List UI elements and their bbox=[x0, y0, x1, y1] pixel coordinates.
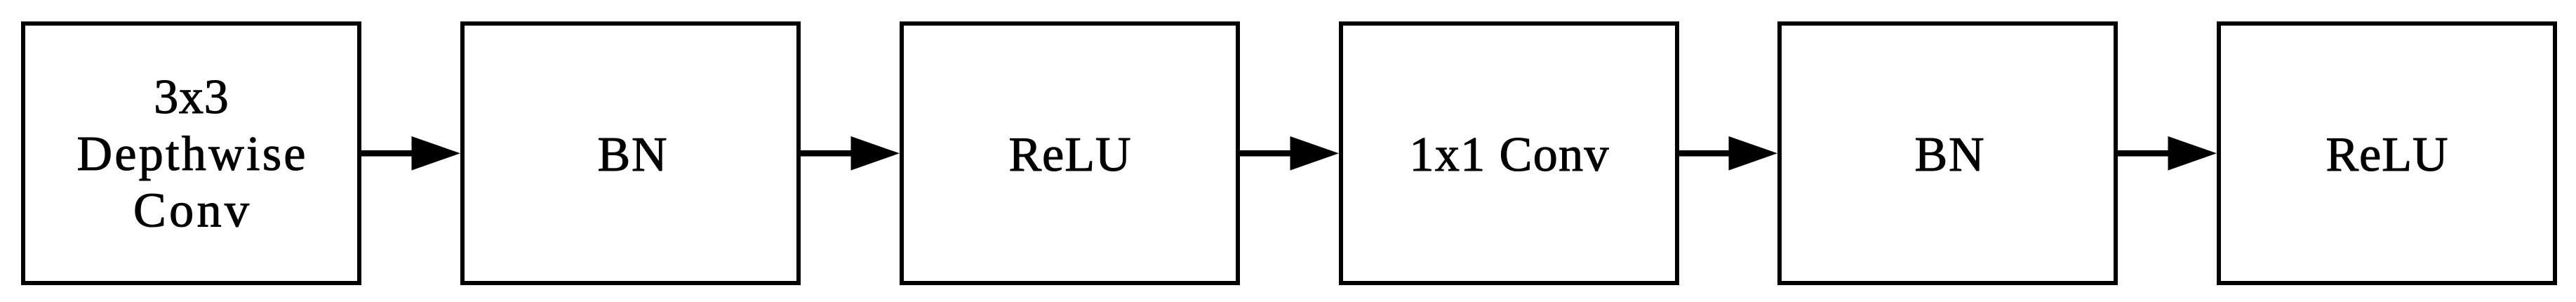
arrow: BN to ReLU (second) bbox=[2118, 136, 2217, 171]
block "BN" (first) bbox=[462, 24, 799, 284]
block "ReLU" (first) bbox=[902, 24, 1238, 284]
block "3x3 Depthwise Conv" bbox=[23, 24, 359, 284]
arrow: BN to ReLU bbox=[801, 136, 900, 171]
svg-text:ReLU: ReLU bbox=[1009, 128, 1131, 182]
arrow: 1x1 Conv to BN bbox=[1679, 136, 1777, 171]
svg-text:1x1 Conv: 1x1 Conv bbox=[1410, 128, 1609, 182]
svg-text:BN: BN bbox=[1915, 128, 1984, 182]
block "1x1 Conv" bbox=[1341, 24, 1677, 284]
svg-text:Conv: Conv bbox=[133, 184, 249, 238]
svg-text:3x3: 3x3 bbox=[154, 70, 229, 124]
arrow: Depthwise Conv to BN bbox=[361, 136, 460, 171]
svg-text:Depthwise: Depthwise bbox=[77, 127, 306, 181]
svg-text:BN: BN bbox=[598, 128, 667, 182]
block "BN" (second) bbox=[1780, 24, 2116, 284]
arrow: ReLU to 1x1 Conv bbox=[1240, 136, 1339, 171]
svg-text:ReLU: ReLU bbox=[2326, 128, 2448, 182]
block "ReLU" (second) bbox=[2219, 24, 2555, 284]
